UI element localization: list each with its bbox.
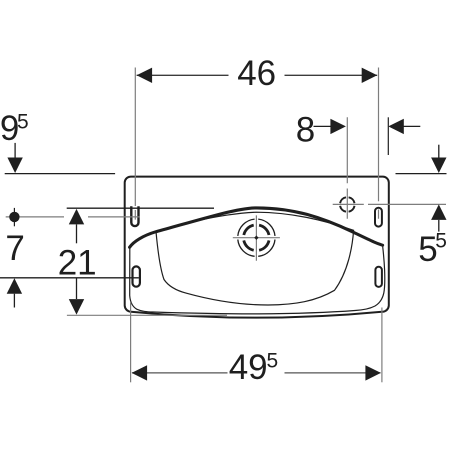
svg-text:5: 5	[267, 349, 279, 372]
basin outer outline	[125, 177, 389, 318]
dimension 495 left arrow	[132, 365, 148, 380]
svg-text:46: 46	[237, 54, 276, 93]
dimension 46 left arrow	[137, 68, 153, 83]
drain inner circle	[244, 225, 269, 250]
faucet/55 centerline horizontal	[333, 203, 446, 205]
svg-text:21: 21	[58, 243, 97, 282]
edge extension line x388	[387, 117, 389, 155]
dimension 7 up arrow	[7, 278, 22, 294]
extension line x130.6 bottom	[130, 302, 132, 382]
dimension 95 arrow	[7, 158, 22, 174]
svg-text:5: 5	[435, 230, 447, 253]
dimension 46 right arrow	[362, 68, 378, 83]
dimension 495 line	[132, 372, 381, 374]
reference line y208	[67, 207, 214, 209]
top edge reference line right	[396, 173, 447, 175]
basin bowl outline	[156, 212, 354, 305]
drain crosshair	[233, 215, 280, 260]
dimension 21 down arrow	[76, 279, 78, 300]
dimension 95 arrow line	[14, 143, 16, 159]
dimension 8 right arrow line	[403, 125, 420, 127]
faucet hole circle	[340, 197, 354, 211]
dimension 21 up arrow	[69, 209, 84, 225]
dimension 8 right arrow (left-pointing)	[388, 119, 404, 134]
fixing slot lower-right	[375, 267, 382, 287]
dimension 55 up arrow	[431, 204, 446, 220]
svg-text:7: 7	[5, 229, 24, 268]
extension line x381.9 bottom	[381, 308, 383, 383]
drain center mark	[254, 236, 258, 240]
extension line left x135	[134, 68, 136, 220]
basin inner rim line	[130, 247, 385, 314]
svg-text:5: 5	[17, 111, 29, 134]
dimension 495 right arrow	[365, 365, 381, 380]
dimension 8 arrow	[330, 119, 346, 134]
fixing slot upper-right	[375, 208, 382, 227]
drain outer circle	[238, 219, 275, 256]
reference line y277.8	[0, 277, 139, 279]
dimension 46 line	[137, 74, 378, 76]
fixing slot lower-left	[133, 266, 140, 286]
basin back rim thick curve	[130, 208, 383, 247]
dimension 55 down arrow	[438, 145, 440, 160]
hole centerline with dot	[6, 216, 140, 218]
reference line y314.8	[67, 314, 227, 316]
svg-text:8: 8	[296, 111, 315, 150]
fixing slot upper-left (open U)	[131, 206, 138, 226]
faucet centerline vertical	[346, 117, 348, 218]
top edge reference line left	[5, 173, 115, 175]
dimension 8 line	[314, 125, 332, 127]
extension line right x378.5	[378, 68, 380, 219]
svg-text:49: 49	[229, 348, 268, 387]
